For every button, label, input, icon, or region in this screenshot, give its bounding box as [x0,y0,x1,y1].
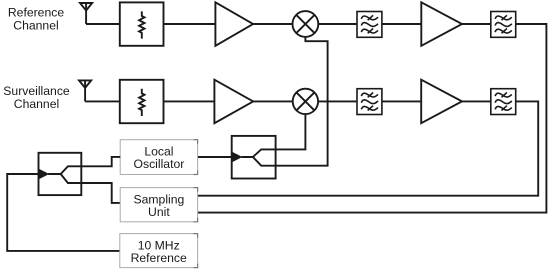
wire (mixer to IF filter 1) [318,100,357,102]
wire (IF filter 1 to IF amplifier) [382,23,422,25]
svg-text:Surveillance: Surveillance [3,84,70,98]
wire (amplifier to mixer) [253,100,292,102]
label: Reference Channel [8,5,64,32]
amplifier (surveillance channel RF amp) [214,80,253,124]
antenna (reference channel) [80,3,92,24]
wire (IF filter 1 to IF amplifier) [382,100,422,102]
wire (splitter to local oscillator) [81,157,120,166]
band-pass filter (reference channel IF filter 2) [491,12,516,38]
power splitter (10 MHz distribution) [39,153,82,195]
local oscillator [120,140,197,175]
band-pass filter (reference channel IF filter 1) [357,12,382,38]
svg-text:Reference: Reference [8,5,64,19]
wire (reference antenna to attenuator) [86,23,120,25]
attenuator (reference channel) [120,2,164,45]
wire (surveillance IF output to sampling unit) [198,101,539,195]
svg-text:Reference: Reference [131,251,187,265]
mixer (surveillance channel) [293,89,318,114]
wire (reference IF output to sampling unit) [198,24,547,213]
wire (IF amplifier to IF filter 2) [462,100,490,102]
wire (10 MHz reference to splitter) [7,174,120,251]
wire (attenuator to amplifier) [164,23,216,25]
wire (LO injection to reference mixer) [276,37,328,166]
wire (amplifier to mixer) [253,23,292,25]
svg-text:Channel: Channel [13,18,58,32]
band-pass filter (surveillance channel IF filter 2) [491,89,516,115]
antenna (surveillance channel) [79,80,91,101]
band-pass filter (surveillance channel IF filter 1) [357,89,382,115]
svg-text:Oscillator: Oscillator [134,157,185,171]
power splitter (LO distribution) [232,136,276,179]
wire (mixer to IF filter 1) [318,23,357,25]
10 MHz reference [120,234,198,268]
wire (surveillance antenna to attenuator) [85,100,120,102]
attenuator (surveillance channel) [120,80,164,123]
wire (local oscillator to LO splitter) [198,156,232,158]
label: Surveillance Channel [3,84,70,111]
wire (IF amplifier to IF filter 2) [462,23,490,25]
mixer (reference channel) [293,11,319,37]
svg-text:Channel: Channel [14,97,59,111]
amplifier (reference channel RF amp) [215,2,253,46]
wire (attenuator to amplifier) [164,100,215,102]
amplifier (reference channel IF amp) [421,2,462,46]
svg-text:Unit: Unit [148,205,170,219]
amplifier (surveillance channel IF amp) [421,80,462,124]
sampling unit [120,188,197,222]
wire (splitter to sampling unit) [81,183,120,203]
wire (LO injection to surveillance mixer) [276,114,306,149]
